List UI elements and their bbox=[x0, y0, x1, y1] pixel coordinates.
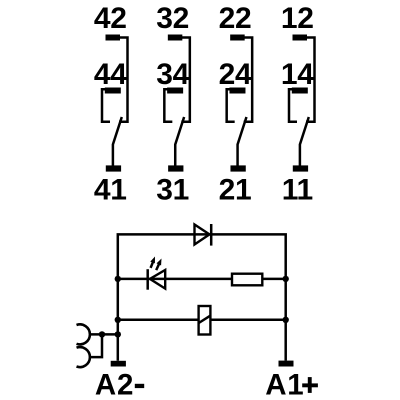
wire: lower bridge contact up to bridge tee bbox=[90, 334, 102, 357]
wire: terminal 44 down to NO contact tip bbox=[102, 89, 110, 122]
terminal 14 (NO contact) bbox=[292, 88, 308, 94]
wire: third line (coil branch) bbox=[118, 319, 286, 322]
terminal 11 (common) bbox=[293, 165, 308, 171]
wire: terminal 32 down to NC contact tip bbox=[181, 38, 190, 122]
plus sign of label A1+ (vertical bar) bbox=[308, 377, 312, 393]
switch arm (common pole 31) bbox=[175, 117, 184, 166]
terminal 21 (common) bbox=[230, 165, 245, 171]
resistor R1 bbox=[232, 274, 262, 286]
bridge connector arc (upper) bbox=[77, 324, 90, 344]
terminal 42 (NC contact) bbox=[106, 35, 121, 41]
LED indicator bbox=[148, 269, 166, 290]
switch arm (common pole 41) bbox=[113, 117, 122, 166]
svg-text:12: 12 bbox=[281, 2, 314, 35]
LED emission arrows bbox=[150, 257, 161, 271]
junction dot: left rail / second line bbox=[115, 276, 121, 282]
svg-text:44: 44 bbox=[94, 58, 127, 91]
svg-text:41: 41 bbox=[94, 173, 127, 206]
svg-text:A2: A2 bbox=[95, 368, 134, 400]
wire: terminal 34 down to NO contact tip bbox=[164, 89, 172, 122]
svg-text:22: 22 bbox=[219, 2, 252, 35]
wire: terminal 24 down to NO contact tip bbox=[227, 89, 235, 122]
junction dot: right rail / third line bbox=[283, 317, 289, 323]
svg-text:32: 32 bbox=[156, 2, 189, 35]
terminal A1 bbox=[279, 361, 294, 367]
terminal 31 (common) bbox=[168, 165, 183, 171]
plus sign of label A1+ (horizontal bar) bbox=[302, 383, 318, 387]
terminal 24 (NO contact) bbox=[229, 88, 245, 94]
terminal 32 (NC contact) bbox=[168, 35, 183, 41]
wire: terminal 22 down to NC contact tip bbox=[244, 38, 253, 122]
junction dot: bridge tee bbox=[99, 331, 105, 337]
bridge connector arc (lower) bbox=[77, 347, 90, 367]
svg-text:A1: A1 bbox=[265, 368, 304, 400]
svg-text:31: 31 bbox=[156, 173, 189, 206]
svg-text:34: 34 bbox=[156, 58, 189, 91]
wire: second line (LED + resistor branch) bbox=[118, 278, 286, 281]
diode D1 on top wire bbox=[195, 224, 212, 246]
svg-text:14: 14 bbox=[281, 58, 314, 91]
svg-text:42: 42 bbox=[94, 2, 127, 35]
wire: terminal 12 down to NC contact tip bbox=[306, 38, 315, 122]
terminal A2 bbox=[111, 361, 126, 367]
relay coil K1 bbox=[199, 306, 211, 335]
wire: outer loop (left rail, top wire, right rail) bbox=[118, 234, 286, 360]
minus sign of label A2- bbox=[135, 384, 144, 388]
wire: terminal 14 down to NO contact tip bbox=[289, 89, 297, 122]
junction dot: left rail / third line bbox=[115, 317, 121, 323]
terminal 34 (NO contact) bbox=[167, 88, 183, 94]
terminal 22 (NC contact) bbox=[230, 35, 245, 41]
junction dot: right rail / second line bbox=[283, 276, 289, 282]
wire: terminal 42 down to NC contact tip bbox=[119, 38, 128, 122]
junction dot: left rail / bridge line bbox=[115, 331, 121, 337]
terminal 12 (NC contact) bbox=[293, 35, 308, 41]
svg-text:21: 21 bbox=[219, 173, 252, 206]
svg-text:11: 11 bbox=[282, 173, 313, 206]
switch arm (common pole 11) bbox=[300, 117, 309, 166]
terminal 44 (NO contact) bbox=[105, 88, 121, 94]
wire: upper bridge contact to left rail bbox=[90, 333, 118, 336]
terminal 41 (common) bbox=[106, 165, 121, 171]
svg-text:24: 24 bbox=[219, 58, 252, 91]
switch arm (common pole 21) bbox=[238, 117, 247, 166]
